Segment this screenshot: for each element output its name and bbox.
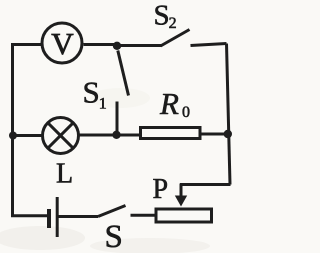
wire right vertical <box>227 44 231 185</box>
lamp L cross diagonal 2 <box>48 123 73 148</box>
svg-text:V: V <box>51 26 74 61</box>
switch S blade (open) <box>98 206 126 217</box>
junction dot middle (S1 bottom) <box>112 131 120 139</box>
switch S2 blade (open) <box>161 30 190 47</box>
lamp L cross diagonal 1 <box>48 123 73 148</box>
wire left vertical <box>11 43 14 217</box>
wire S contact to rheostat <box>131 214 157 217</box>
lamp L circle <box>43 118 79 154</box>
wire R0 to right junction <box>200 133 230 136</box>
battery negative plate (short) <box>47 209 51 228</box>
svg-text:S: S <box>105 219 123 253</box>
wire S1 lower contact vertical <box>116 102 119 136</box>
svg-text:L: L <box>56 159 73 190</box>
switch S1 blade (open, hanging from top junction) <box>118 51 129 96</box>
wire right corner to rheostat wiper <box>180 183 231 186</box>
wire S2 right contact to top-right corner <box>191 44 227 46</box>
resistor R0 box <box>141 128 201 139</box>
wire junction to switch S2 pivot <box>117 44 161 47</box>
wire left junction to lamp <box>13 134 43 137</box>
junction dot right (R0 right) <box>224 130 232 138</box>
voltmeter V1 circle <box>42 23 82 63</box>
rheostat R box <box>156 209 212 222</box>
rheostat wiper arrowhead <box>175 196 187 207</box>
wire battery to switch S <box>59 215 99 218</box>
battery positive plate (long) <box>56 197 59 237</box>
junction dot left (lamp branch) <box>9 132 17 140</box>
junction dot top (V / S1 / S2) <box>113 42 121 50</box>
wire top-left horizontal (frame corner to voltmeter) <box>11 43 42 46</box>
svg-text:P: P <box>153 174 169 205</box>
wire lamp to resistor R0 <box>79 134 141 137</box>
wire bottom-left horizontal (corner to battery) <box>11 214 48 217</box>
wire voltmeter to top junction <box>84 43 118 46</box>
rheostat wiper arrow stem <box>180 184 183 198</box>
